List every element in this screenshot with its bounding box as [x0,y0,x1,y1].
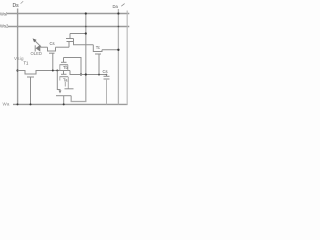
label OLED [31,51,42,56]
label Da (top right power) [113,4,119,9]
node dot (127.2,26.5) [126,26,128,28]
svg-text:Ds: Ds [13,3,20,9]
wire: scan line 2 horizontal y=26.5 [8,26,129,28]
transistor T3 (top middle) [66,34,93,48]
svg-text:Tb: Tb [63,65,69,70]
anode wire [40,46,47,48]
node dot (127.2,13.5) [126,13,128,15]
node dot (17.5,104.4) [17,103,19,105]
label Wa (bottom scan line label) [3,101,10,106]
transistor Tb (upper of stacked pair, gate above) [60,58,82,75]
EL diode D1 with emission arrow [33,38,48,51]
svg-text:Tc: Tc [96,45,100,50]
cathode bar wide [56,95,71,97]
svg-text:Ws2: Ws2 [0,24,9,29]
svg-text:T1: T1 [24,61,30,66]
label Ws2 (scan line 2, left) [0,24,9,29]
transistor T1 (sampling) [18,61,71,105]
node dot (57.3,70.5) [56,70,58,72]
wire: mid vertical x=85.5 from scan1 down [71,14,86,102]
wire: node line corner to mirror bus y=74.5 [70,71,107,75]
svg-text:Cs: Cs [50,41,55,46]
svg-text:Wa: Wa [3,101,10,106]
node dot (118.4,49.8) [117,49,119,51]
transistor T2 [48,41,56,71]
diode bar [34,45,36,51]
lead mark [64,82,66,87]
wire: bottom scan line horizontal y=104.4 [13,103,128,105]
svg-text:Vsig: Vsig [14,56,24,61]
svg-text:Wsl: Wsl [0,11,7,16]
node dot A (17.5,70.5) [16,69,18,71]
node dot (85.5,26.5) [85,26,87,28]
node dot (118.4,26.5) [118,26,120,28]
label Vsig (node annotation) [14,56,24,61]
wire: scan line 1 horizontal y=13.5 [7,13,129,15]
node dot (81,74.5) [80,73,82,75]
svg-text:Cs: Cs [103,69,108,74]
node dot (85.5,13.5) [85,12,87,14]
node dot (85.5,74.5) [85,73,87,75]
wire: right edge vertical x=127.2 [126,11,128,105]
diode triangle [36,45,41,52]
wire: gate bus y=47.2 to Tc [56,46,70,48]
wire: EL drop leg x=57.3 [57,71,60,91]
capacitor Cs (right) [103,69,110,104]
transistor Ta (lower of stacked pair, gate above) [60,71,69,89]
wire: right power vertical x=118.4 [117,9,119,104]
node dot (63.7,104.4) [63,103,65,105]
node dot (106.5,74.5) [106,74,108,76]
node dot (17.5,26.5) [17,26,19,28]
node dot (17.5,13.5) [17,13,19,15]
node dot (85.5,33.5) [85,32,87,34]
top plate [65,88,74,90]
node dot (52.8,70.5) [52,70,54,72]
diode triangle down [59,91,62,94]
label Ws1 (scan line 1, left) [0,11,7,16]
transistor Tc (right) [93,45,118,75]
node dot (99,74.5) [98,74,100,76]
svg-text:Ta: Ta [63,77,68,82]
wire: data line vertical Ds x=17.5 [17,9,19,105]
cathode stem [63,96,65,105]
EL element plate structure [56,82,74,104]
label Ds (data line, top left) [13,3,20,9]
emission arrow [34,40,41,47]
svg-text:Da: Da [113,4,119,9]
node dot (118.4,13.5) [117,12,119,14]
node dot (30.5,104.4) [30,103,32,105]
svg-text:OLED: OLED [31,51,42,56]
